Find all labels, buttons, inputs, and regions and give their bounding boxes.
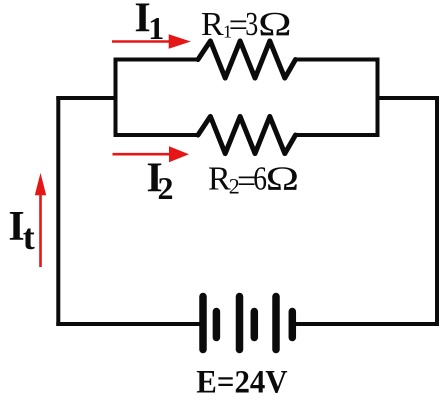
wire: left junction horizontal: [56, 96, 117, 100]
svg-text:2: 2: [158, 170, 174, 206]
wire: parallel branch left vertical: [114, 58, 118, 138]
svg-text:R: R: [208, 160, 231, 197]
wire: bottom branch right lead: [296, 133, 380, 137]
wire: battery to bottom right corner: [296, 322, 439, 326]
current arrow I1 shaft: [112, 40, 173, 43]
svg-text:3: 3: [245, 6, 258, 43]
current arrow I1 head: [169, 34, 191, 48]
svg-text:t: t: [23, 217, 35, 257]
svg-text:E=24V: E=24V: [196, 364, 287, 400]
wire: top branch right lead: [296, 58, 380, 62]
svg-text:R: R: [201, 6, 224, 43]
current arrow I2 head: [169, 146, 189, 162]
battery E: cell 1 long plate: [199, 297, 207, 350]
svg-text:Ω: Ω: [266, 160, 300, 197]
battery E: cell 3 long plate: [272, 297, 280, 350]
svg-text:1: 1: [148, 10, 164, 46]
wire: bottom left to battery: [56, 322, 200, 326]
resistor R1 zigzag: [198, 41, 296, 78]
battery E: cell 1 short plate: [213, 312, 221, 338]
wire: right junction horizontal: [376, 96, 440, 100]
current arrow I2 shaft: [113, 153, 174, 156]
current arrow It shaft: [39, 192, 42, 267]
wire: parallel branch right vertical: [376, 58, 380, 138]
wire: right vertical of main loop: [435, 96, 439, 326]
battery E: cell 2 short plate: [251, 312, 259, 338]
current arrow It head: [35, 173, 46, 195]
battery E: cell 3 short plate: [289, 312, 297, 338]
wire: left vertical of main loop: [56, 96, 60, 326]
wire: bottom branch left lead: [114, 133, 199, 137]
battery E: cell 2 long plate: [236, 297, 244, 350]
svg-text:Ω: Ω: [258, 6, 292, 43]
resistor R2 zigzag: [198, 116, 296, 153]
wire: top branch left lead: [114, 58, 199, 62]
